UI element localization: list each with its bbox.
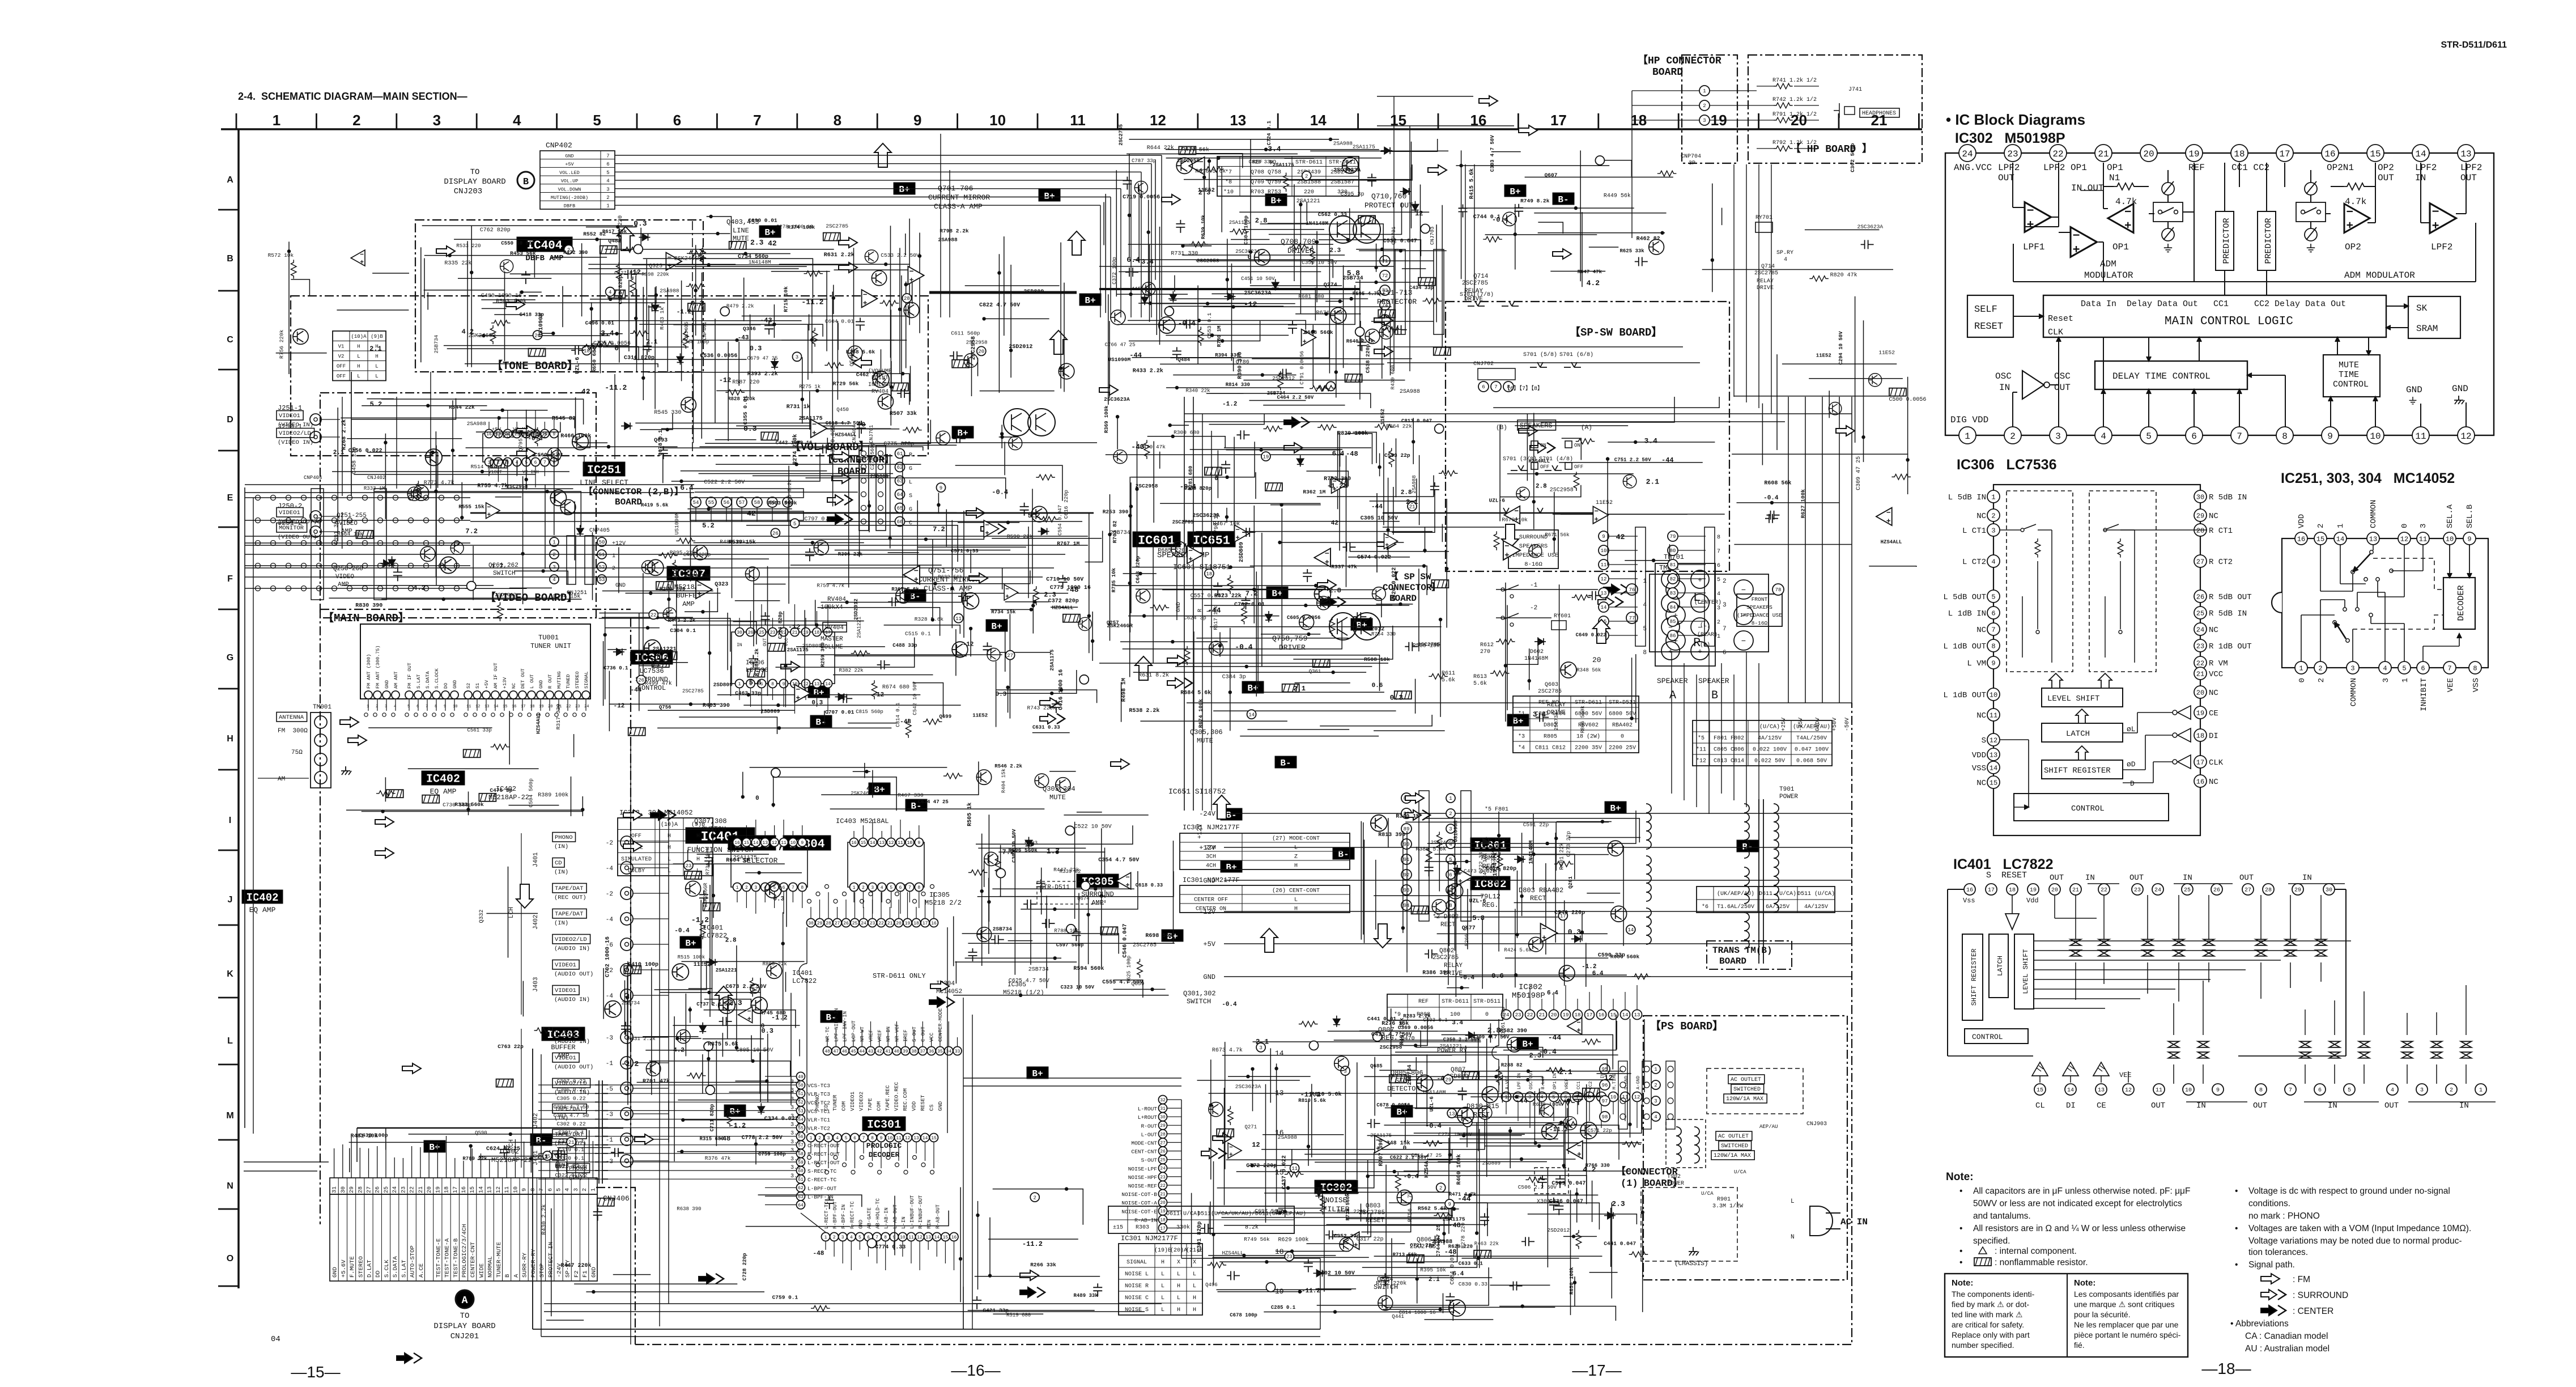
svg-text:B+: B+ xyxy=(899,184,909,194)
svg-text:VSS: VSS xyxy=(1972,764,1986,773)
CNP405 strip xyxy=(567,536,576,584)
svg-text:13: 13 xyxy=(1634,1012,1640,1018)
SHIFT REGISTER box xyxy=(2042,760,2123,779)
svg-text:UZL-6: UZL-6 xyxy=(1469,898,1486,905)
svg-text:H: H xyxy=(357,364,360,370)
svg-text:2: 2 xyxy=(376,705,378,709)
svg-text:CENTER OFF: CENTER OFF xyxy=(1194,897,1228,904)
svg-text:CNJ701: CNJ701 xyxy=(869,425,874,443)
svg-text:AC IN: AC IN xyxy=(1840,1217,1868,1227)
svg-text:2.3: 2.3 xyxy=(1044,591,1056,599)
svg-text:VIDEO1: VIDEO1 xyxy=(555,962,576,969)
svg-text:9: 9 xyxy=(917,841,920,846)
svg-text:7: 7 xyxy=(2237,431,2242,442)
svg-text:C434 33p: C434 33p xyxy=(1409,285,1434,291)
LATCH box vertical xyxy=(1989,934,2008,998)
svg-text:18: 18 xyxy=(530,705,534,709)
svg-text:10: 10 xyxy=(989,112,1006,129)
vol board horizontal bus xyxy=(470,512,1094,514)
svg-text:The components identi-: The components identi- xyxy=(1952,1290,2035,1299)
svg-text:4: 4 xyxy=(2383,664,2387,672)
svg-text:14: 14 xyxy=(825,682,831,687)
svg-text:IC302 M50198P: IC302 M50198P xyxy=(1955,130,2065,146)
svg-text:13: 13 xyxy=(1230,112,1246,129)
svg-text:R317 330: R317 330 xyxy=(555,703,562,729)
svg-text:R767 1M: R767 1M xyxy=(1057,541,1079,547)
IC306 pin 30 R 5dB IN xyxy=(2194,490,2207,503)
svg-text:COMMON: COMMON xyxy=(2369,500,2378,528)
signal path arrow xyxy=(635,1134,653,1144)
svg-text:CS: CS xyxy=(929,1104,935,1111)
svg-text:2SC2785: 2SC2785 xyxy=(1462,280,1488,287)
MC14052 pin 4 xyxy=(2379,661,2391,674)
svg-text:IC301: IC301 xyxy=(867,1119,901,1132)
svg-text:8: 8 xyxy=(1991,642,1995,650)
svg-text:Z: Z xyxy=(1294,854,1298,860)
svg-text:+5.6V: +5.6V xyxy=(341,1259,347,1278)
svg-text:DRIVER: DRIVER xyxy=(1279,643,1306,652)
power label B- xyxy=(810,715,832,727)
svg-text:S701 (5/8): S701 (5/8) xyxy=(1523,351,1557,358)
svg-text:9: 9 xyxy=(2216,1088,2220,1094)
svg-text:2SA1175: 2SA1175 xyxy=(1353,144,1375,150)
svg-text:Q271: Q271 xyxy=(1245,1125,1257,1130)
svg-text:R419 5.6k: R419 5.6k xyxy=(641,503,669,508)
svg-text:R-AB-OUT: R-AB-OUT xyxy=(935,1204,941,1229)
svg-text:VIDEO2: VIDEO2 xyxy=(858,1091,865,1111)
svg-text:IC305: IC305 xyxy=(929,891,950,899)
svg-text:L: L xyxy=(1193,1271,1196,1278)
svg-text:2200 35V: 2200 35V xyxy=(1575,745,1602,752)
IC401 reset inverter xyxy=(2005,914,2019,930)
switch element xyxy=(2174,939,2184,956)
nonflammable resistor symbol xyxy=(1974,1258,1991,1266)
svg-text:(AUDIO OUT): (AUDIO OUT) xyxy=(554,971,593,978)
svg-text:C504 560p: C504 560p xyxy=(528,778,534,808)
IC302 pin 4 xyxy=(2095,427,2112,444)
IC401 pin 28 xyxy=(2263,884,2274,895)
svg-text:C355 0.01: C355 0.01 xyxy=(742,396,749,425)
svg-text:B+: B+ xyxy=(1270,196,1281,206)
svg-text:A: A xyxy=(513,1274,520,1278)
svg-text:26: 26 xyxy=(843,921,849,926)
IC306 pin 3 L CT1 xyxy=(1987,524,2000,536)
svg-text:82: 82 xyxy=(1670,576,1676,582)
svg-text:2SC2958: 2SC2958 xyxy=(1197,258,1219,264)
svg-text:L: L xyxy=(1294,845,1298,851)
svg-text:R901: R901 xyxy=(1717,1197,1731,1203)
svg-text:4: 4 xyxy=(565,1188,571,1191)
svg-text:94: 94 xyxy=(1404,903,1410,909)
svg-text:DRIVE: DRIVE xyxy=(1757,285,1774,291)
svg-text:H: H xyxy=(1294,863,1298,869)
svg-text:pièce portant le numéro spéci-: pièce portant le numéro spéci- xyxy=(2074,1330,2181,1339)
svg-text:IC301 NJM2177F: IC301 NJM2177F xyxy=(1121,1235,1178,1242)
svg-text:TUNED: TUNED xyxy=(566,674,571,689)
crystal X301 xyxy=(1534,1168,1568,1194)
svg-text:R639 10k: R639 10k xyxy=(1201,214,1206,239)
svg-text:【SP-SW BOARD】: 【SP-SW BOARD】 xyxy=(1570,325,1662,339)
op-amp LPF1 xyxy=(2025,202,2051,232)
svg-text:83: 83 xyxy=(1670,591,1676,596)
svg-text:R616 5.6k: R616 5.6k xyxy=(1195,168,1226,175)
svg-text:LOP-OUT: LOP-OUT xyxy=(851,1020,857,1042)
svg-text:23: 23 xyxy=(685,863,691,869)
svg-text:3.4: 3.4 xyxy=(1268,145,1281,153)
svg-text:NOISE: NOISE xyxy=(1325,1196,1347,1204)
svg-text:TEST-TONE-E: TEST-TONE-E xyxy=(435,1238,442,1278)
svg-text:IC306 LC7536: IC306 LC7536 xyxy=(1957,457,2057,473)
svg-text:UZL-6: UZL-6 xyxy=(575,357,581,374)
svg-text:Q257: Q257 xyxy=(1107,620,1119,626)
svg-text:80: 80 xyxy=(1670,548,1676,554)
svg-text:9: 9 xyxy=(2467,535,2471,543)
signal path arrow (surround/center) xyxy=(1020,1287,1045,1297)
svg-text:C550 10 50V: C550 10 50V xyxy=(501,240,535,246)
svg-text:R685 220k: R685 220k xyxy=(1158,548,1188,554)
svg-text:R394 330: R394 330 xyxy=(1215,353,1239,358)
svg-text:17: 17 xyxy=(923,921,928,926)
wire cluster region 9 xyxy=(685,588,717,612)
svg-text:21: 21 xyxy=(568,1140,575,1146)
svg-text:R CT1: R CT1 xyxy=(2209,527,2233,536)
svg-text:14: 14 xyxy=(1601,605,1607,610)
svg-text:13: 13 xyxy=(1601,591,1607,596)
switch element xyxy=(2402,1041,2413,1058)
svg-text:9: 9 xyxy=(2327,431,2333,442)
jack PHONO (IN) xyxy=(552,833,576,842)
S701 switch glyphs xyxy=(1530,362,1547,367)
numbered circles 87-94 xyxy=(1401,793,1412,803)
svg-text:6: 6 xyxy=(1723,650,1727,656)
svg-text:28: 28 xyxy=(358,1186,364,1193)
svg-text:Reset: Reset xyxy=(2048,314,2073,324)
svg-text:R638 390: R638 390 xyxy=(677,1206,701,1212)
svg-text:RELAY: RELAY xyxy=(1757,278,1774,285)
svg-text:Voltages are taken with a VOM: Voltages are taken with a VOM (Input Imp… xyxy=(2248,1224,2471,1233)
svg-text:19: 19 xyxy=(1160,1209,1166,1214)
svg-text:2SA988: 2SA988 xyxy=(660,287,679,294)
svg-text:8: 8 xyxy=(530,1188,537,1191)
svg-text:3.4: 3.4 xyxy=(1533,710,1546,719)
svg-text:0.6: 0.6 xyxy=(1491,972,1504,980)
svg-text:-12: -12 xyxy=(628,269,641,277)
svg-text:une marque ⚠ sont critiques: une marque ⚠ sont critiques xyxy=(2074,1300,2175,1309)
svg-text:1: 1 xyxy=(2401,678,2410,682)
svg-text:ted line with mark ⚠: ted line with mark ⚠ xyxy=(1952,1310,2022,1319)
vol board connector grid xyxy=(245,497,470,498)
svg-text:-1: -1 xyxy=(1530,582,1538,589)
svg-text:50: 50 xyxy=(599,540,605,545)
svg-text:R594 560k: R594 560k xyxy=(1073,965,1104,972)
svg-text:0: 0 xyxy=(1485,1012,1489,1018)
svg-text:•: • xyxy=(1959,1246,1962,1256)
svg-text:*11: *11 xyxy=(1696,746,1706,753)
svg-text:-4: -4 xyxy=(606,917,614,923)
svg-text:C303 10 50V: C303 10 50V xyxy=(1011,829,1017,863)
svg-text:97: 97 xyxy=(1602,1098,1608,1104)
svg-text:3.4: 3.4 xyxy=(1644,437,1658,446)
svg-text:C515 0.1: C515 0.1 xyxy=(905,630,931,637)
svg-text:120W/1A MAX: 120W/1A MAX xyxy=(1714,1152,1751,1159)
svg-text:ANTENNA: ANTENNA xyxy=(279,714,304,721)
signal path arrow xyxy=(1405,793,1424,803)
svg-text:5: 5 xyxy=(556,1188,563,1191)
svg-text:1: 1 xyxy=(367,705,369,709)
svg-text:REC.COM: REC.COM xyxy=(902,1088,908,1111)
svg-text:REF: REF xyxy=(1418,999,1429,1005)
MAIN CONTROL LOGIC box xyxy=(2043,295,2386,337)
svg-text:NC: NC xyxy=(1976,711,1986,720)
power label B+ xyxy=(1242,681,1264,693)
svg-text:-25V: -25V xyxy=(1798,718,1804,731)
svg-text:R303: R303 xyxy=(1136,1225,1149,1231)
svg-text:1: 1 xyxy=(1703,88,1706,94)
svg-text:MASTER: MASTER xyxy=(821,636,843,643)
wire cluster region 15 xyxy=(1363,822,1364,935)
PREDICTOR box 1 xyxy=(2216,211,2234,270)
wire bus IC302 xyxy=(2012,163,2013,207)
IC302 pin 13 xyxy=(2458,145,2475,162)
svg-text:21: 21 xyxy=(2072,888,2079,894)
svg-text:6: 6 xyxy=(673,112,681,129)
svg-text:2: 2 xyxy=(818,1136,821,1141)
IC302 pin 15 xyxy=(2367,145,2384,162)
svg-text:R467 330: R467 330 xyxy=(898,792,924,798)
svg-text:C611 560p: C611 560p xyxy=(951,330,980,337)
MC14052 pin 15 xyxy=(2314,532,2327,545)
svg-text:C301 820p: C301 820p xyxy=(1197,1221,1203,1252)
AC IN plug xyxy=(1810,1206,1833,1236)
svg-text:22: 22 xyxy=(410,1186,416,1193)
svg-text:R572 10k: R572 10k xyxy=(268,252,294,258)
svg-text:R788 10k: R788 10k xyxy=(1054,928,1078,934)
svg-text:5: 5 xyxy=(1449,857,1452,863)
svg-text:US1090M: US1090M xyxy=(674,512,680,535)
IC401 pin 30 xyxy=(2323,884,2335,895)
svg-text:16: 16 xyxy=(2324,149,2335,159)
svg-text:OUT: OUT xyxy=(2050,873,2064,883)
svg-text:7: 7 xyxy=(753,112,761,129)
svg-text:Voltage variations may be note: Voltage variations may be noted due to n… xyxy=(2248,1236,2462,1246)
svg-text:PREDICTOR: PREDICTOR xyxy=(2264,218,2273,264)
switch element xyxy=(2204,939,2214,956)
svg-text:C477 33p: C477 33p xyxy=(860,456,885,462)
svg-text:J: J xyxy=(228,895,233,905)
svg-text:18 (2W): 18 (2W) xyxy=(1576,733,1600,740)
switch element xyxy=(2461,1041,2472,1058)
IC306 pin 20 NC xyxy=(2194,686,2207,698)
svg-text:C500 0.0056: C500 0.0056 xyxy=(1889,397,1926,403)
IC401 pin 10 xyxy=(2183,1084,2194,1095)
svg-text:R749 56k: R749 56k xyxy=(1244,1236,1270,1242)
svg-text:R376 47k: R376 47k xyxy=(705,1155,731,1161)
svg-text:C-RECT-TC: C-RECT-TC xyxy=(807,1177,837,1183)
IC302 pin 6 xyxy=(2186,427,2203,444)
svg-text:ON: ON xyxy=(1540,443,1546,448)
svg-text:B-: B- xyxy=(1226,810,1236,820)
svg-text:23: 23 xyxy=(1160,1175,1166,1180)
svg-text:20: 20 xyxy=(548,705,552,709)
signal arrow bottom xyxy=(397,1353,422,1363)
svg-text:9: 9 xyxy=(1448,1202,1451,1207)
MC14052 pin 2 xyxy=(2314,661,2327,674)
svg-text:ANG.VCC: ANG.VCC xyxy=(1954,163,1992,173)
svg-text:US1090M: US1090M xyxy=(1453,821,1459,842)
svg-text:11: 11 xyxy=(1990,711,1997,719)
ground xyxy=(2307,244,2315,252)
svg-text:4: 4 xyxy=(552,577,555,583)
svg-text:R393 2.2k: R393 2.2k xyxy=(747,371,778,377)
svg-text:2SA1221: 2SA1221 xyxy=(1440,1043,1463,1049)
svg-text:COM: COM xyxy=(876,1101,882,1111)
svg-text:Q802: Q802 xyxy=(1439,948,1454,955)
svg-text:1N4148M: 1N4148M xyxy=(1528,841,1534,864)
svg-text:12: 12 xyxy=(1252,1141,1260,1149)
svg-text:PROLOGIC2/3/4CH: PROLOGIC2/3/4CH xyxy=(461,1224,468,1278)
svg-text:C684 0.01: C684 0.01 xyxy=(1450,1254,1456,1284)
svg-text:14: 14 xyxy=(479,1186,485,1193)
svg-text:R398 220k: R398 220k xyxy=(641,272,669,278)
speaker terminal TM701 xyxy=(1655,563,1656,564)
svg-text:7: 7 xyxy=(606,154,609,159)
svg-text:2.1: 2.1 xyxy=(537,1154,549,1161)
svg-text:R814 330: R814 330 xyxy=(1226,382,1250,388)
svg-text:R375 5.6k: R375 5.6k xyxy=(708,1041,738,1048)
thick G bus xyxy=(929,291,1077,294)
svg-text:S: S xyxy=(909,493,912,499)
svg-text:B+: B+ xyxy=(1032,1068,1043,1079)
svg-text:16: 16 xyxy=(951,1235,957,1240)
svg-text:BOARD: BOARD xyxy=(615,497,642,507)
svg-text:NR-TC: NR-TC xyxy=(825,1026,831,1042)
svg-text:C336 0.047: C336 0.047 xyxy=(1549,1199,1583,1205)
power label B+ xyxy=(1266,587,1288,599)
svg-text:24: 24 xyxy=(584,705,589,709)
svg-text:R756 4.7k: R756 4.7k xyxy=(1407,1191,1414,1222)
svg-text:S.CLK: S.CLK xyxy=(384,1259,390,1278)
power label B+ xyxy=(808,686,830,698)
svg-text:øL: øL xyxy=(2127,725,2136,733)
svg-text:C724 0.1: C724 0.1 xyxy=(1266,120,1272,145)
MC14052 pin 9 xyxy=(2463,532,2476,545)
svg-text:R288 82: R288 82 xyxy=(1501,1063,1523,1068)
svg-text:R-INBUF-OUT: R-INBUF-OUT xyxy=(918,1195,924,1229)
power label B- xyxy=(1221,808,1242,820)
svg-text:0.3: 0.3 xyxy=(773,896,784,903)
svg-text:A: A xyxy=(1669,689,1676,702)
svg-text:OFF: OFF xyxy=(337,364,346,370)
svg-text:Vss: Vss xyxy=(1963,897,1975,905)
svg-text:6: 6 xyxy=(853,1136,856,1141)
svg-text:2SC2785: 2SC2785 xyxy=(682,689,704,694)
svg-text:SURROUND: SURROUND xyxy=(1519,534,1548,541)
svg-text:92: 92 xyxy=(1404,872,1410,878)
svg-text:17: 17 xyxy=(1587,1012,1593,1018)
svg-text:CENTER-MODE: CENTER-MODE xyxy=(938,1008,943,1042)
svg-text:3: 3 xyxy=(433,112,441,129)
svg-text:C618 4.7 50V: C618 4.7 50V xyxy=(826,421,862,426)
table T1.6AL xyxy=(1697,887,1835,913)
svg-text:-2: -2 xyxy=(1530,605,1537,612)
svg-text:C759 0.1: C759 0.1 xyxy=(772,1295,798,1301)
svg-text:12: 12 xyxy=(905,1136,911,1141)
svg-text:-48: -48 xyxy=(900,719,911,726)
svg-text:LEVEL SHIFT: LEVEL SHIFT xyxy=(2022,949,2030,994)
svg-text:42: 42 xyxy=(747,510,756,518)
svg-text:-48: -48 xyxy=(813,1250,824,1257)
svg-text:L-RECT-TC: L-RECT-TC xyxy=(824,1201,830,1229)
wire cluster region 21 xyxy=(821,762,979,795)
svg-text:6: 6 xyxy=(547,1188,554,1191)
svg-text:3.8: 3.8 xyxy=(790,1148,801,1154)
svg-text:40: 40 xyxy=(894,1049,900,1054)
svg-text:Q708 Q758: Q708 Q758 xyxy=(1251,169,1281,176)
svg-text:R562 5.6k: R562 5.6k xyxy=(1418,1205,1447,1211)
signal flow arrow (hollow) xyxy=(617,227,634,251)
svg-text:OP2N1: OP2N1 xyxy=(2327,163,2354,173)
svg-text:L-BPF-OUT: L-BPF-OUT xyxy=(807,1185,837,1191)
svg-text:C678 0.0056: C678 0.0056 xyxy=(1376,1102,1410,1108)
svg-text:VLR-TC2: VLR-TC2 xyxy=(807,1126,830,1132)
svg-text:D602: D602 xyxy=(1530,649,1544,655)
svg-text:B+: B+ xyxy=(813,688,824,698)
svg-text:2: 2 xyxy=(2317,678,2326,682)
svg-text:62: 62 xyxy=(798,1186,804,1191)
IC302 pin 11 xyxy=(2412,427,2429,444)
svg-text:3: 3 xyxy=(385,705,387,709)
svg-text:D.LAT: D.LAT xyxy=(367,1259,373,1278)
svg-text:0: 0 xyxy=(1621,734,1624,740)
svg-text:SK: SK xyxy=(2416,303,2428,313)
svg-text:±15: ±15 xyxy=(1113,1225,1123,1231)
svg-text:8: 8 xyxy=(2259,1088,2263,1094)
svg-text:NR-WT: NR-WT xyxy=(860,1026,865,1042)
signal flow arrow (hollow) xyxy=(1502,524,1519,548)
svg-text:Q256-260: Q256-260 xyxy=(333,566,363,572)
svg-text:OSC: OSC xyxy=(2054,371,2071,381)
svg-text:IREF: IREF xyxy=(903,1029,909,1042)
svg-text:TUNER: TUNER xyxy=(832,1095,838,1111)
svg-text:L-AB-OUT: L-AB-OUT xyxy=(892,1204,898,1229)
svg-text:R715 10k: R715 10k xyxy=(783,286,789,312)
svg-text:-12: -12 xyxy=(963,641,974,648)
svg-text:TM001: TM001 xyxy=(313,704,331,711)
svg-text:C822 33p: C822 33p xyxy=(686,573,710,579)
svg-text:46: 46 xyxy=(842,1049,848,1054)
svg-text:R631 8.2k: R631 8.2k xyxy=(1138,672,1169,679)
svg-text:-3: -3 xyxy=(606,1112,613,1118)
svg-text:C302 0.22: C302 0.22 xyxy=(556,1121,586,1127)
svg-text:RECT: RECT xyxy=(1530,894,1546,902)
svg-text:T902: T902 xyxy=(1667,1174,1681,1180)
HP connector pins xyxy=(1699,86,1710,96)
svg-text:VOL.DOWN: VOL.DOWN xyxy=(558,186,581,192)
svg-text:11E52: 11E52 xyxy=(1878,349,1895,355)
svg-text:3.3M 1/2W: 3.3M 1/2W xyxy=(1712,1203,1743,1210)
AC outlet boxes xyxy=(1728,1075,1765,1084)
svg-text:2SA988: 2SA988 xyxy=(1432,1239,1452,1245)
IC302 pin 5 xyxy=(2140,427,2157,444)
svg-text:-12: -12 xyxy=(1244,300,1257,309)
svg-text:Q699: Q699 xyxy=(940,714,952,720)
svg-text:3: 3 xyxy=(1703,118,1706,124)
svg-text:2.1: 2.1 xyxy=(1406,498,1418,506)
svg-text:48: 48 xyxy=(824,1049,830,1054)
svg-text:SELF: SELF xyxy=(1974,304,1997,315)
svg-text:C702 1000 16: C702 1000 16 xyxy=(605,936,611,977)
TRANS TM(B) BOARD label xyxy=(1707,941,1792,969)
